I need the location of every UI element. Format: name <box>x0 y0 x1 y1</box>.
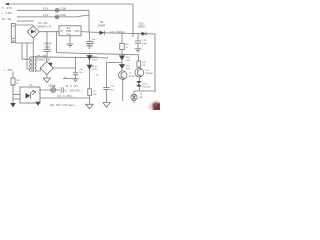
svg-text:A →: A → <box>65 76 69 79</box>
svg-text:(1N4007 x 4): (1N4007 x 4) <box>37 25 51 28</box>
svg-text:F2 1A: F2 1A <box>49 85 56 88</box>
svg-text:OUT: OUT <box>75 31 80 33</box>
svg-text:BC557: BC557 <box>129 76 136 78</box>
svg-text:(35V): (35V) <box>45 46 51 49</box>
svg-text:(0.5A): (0.5A) <box>60 14 67 17</box>
svg-text:(0.5A): (0.5A) <box>60 8 67 11</box>
svg-text:12V - 500mA: 12V - 500mA <box>110 31 125 34</box>
svg-text:< - 1.8V: < - 1.8V <box>1 11 13 15</box>
svg-text:(5V1): (5V1) <box>92 69 98 71</box>
svg-text:D10: D10 <box>139 22 144 25</box>
svg-text:2N3906: 2N3906 <box>145 73 153 75</box>
svg-text:< - 15V: < - 15V <box>3 68 12 72</box>
svg-text:(5V1): (5V1) <box>92 59 98 61</box>
svg-text:14 - 0 - 14 V: 14 - 0 - 14 V <box>66 86 79 88</box>
svg-text:Y - 17V: Y - 17V <box>2 6 13 10</box>
svg-text:7805: 7805 <box>66 30 72 33</box>
svg-text:100u: 100u <box>142 43 148 45</box>
svg-text:1N4007: 1N4007 <box>138 27 147 29</box>
svg-text:W1.2: W1.2 <box>143 83 149 85</box>
svg-text:F5.2: F5.2 <box>44 14 49 17</box>
svg-text:T5.1: T5.1 <box>145 70 150 72</box>
svg-text:RD5.1: RD5.1 <box>92 56 99 58</box>
svg-text:Ø - 4A: Ø - 4A <box>2 17 12 21</box>
svg-text:IN: IN <box>60 30 63 33</box>
svg-text:(1N4007 x 4): (1N4007 x 4) <box>36 59 50 62</box>
svg-text:GND: GND <box>66 34 71 36</box>
svg-text:(15 - 0 - 15V) →: (15 - 0 - 15V) → <box>58 95 75 98</box>
svg-text:1N4007: 1N4007 <box>98 25 107 27</box>
svg-text:(0 - 230V AC) ←: (0 - 230V AC) ← <box>65 89 83 92</box>
svg-text:250-4B: 250-4B <box>143 87 151 89</box>
svg-text:(30 - 15V / 0.5A max.) →: (30 - 15V / 0.5A max.) → <box>50 104 78 107</box>
svg-text:RD5.1: RD5.1 <box>92 66 99 68</box>
svg-text:F5.1: F5.1 <box>44 8 49 11</box>
